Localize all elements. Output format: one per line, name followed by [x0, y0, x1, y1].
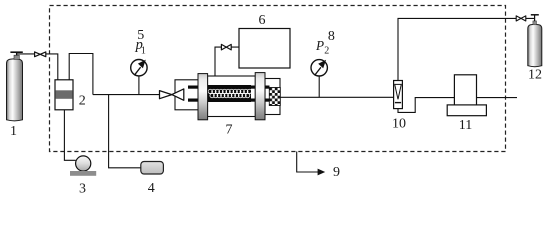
- svg-text:8: 8: [328, 29, 335, 44]
- svg-text:3: 3: [79, 182, 86, 197]
- svg-text:7: 7: [226, 123, 233, 138]
- svg-text:12: 12: [528, 68, 542, 83]
- svg-text:10: 10: [392, 117, 406, 132]
- svg-text:4: 4: [148, 181, 155, 196]
- svg-text:P: P: [315, 38, 324, 53]
- svg-text:2: 2: [79, 93, 86, 108]
- svg-text:9: 9: [333, 165, 340, 180]
- svg-text:1: 1: [10, 124, 17, 139]
- svg-text:11: 11: [459, 118, 472, 133]
- svg-text:6: 6: [259, 13, 266, 28]
- svg-text:2: 2: [324, 46, 329, 57]
- svg-text:1: 1: [141, 46, 146, 57]
